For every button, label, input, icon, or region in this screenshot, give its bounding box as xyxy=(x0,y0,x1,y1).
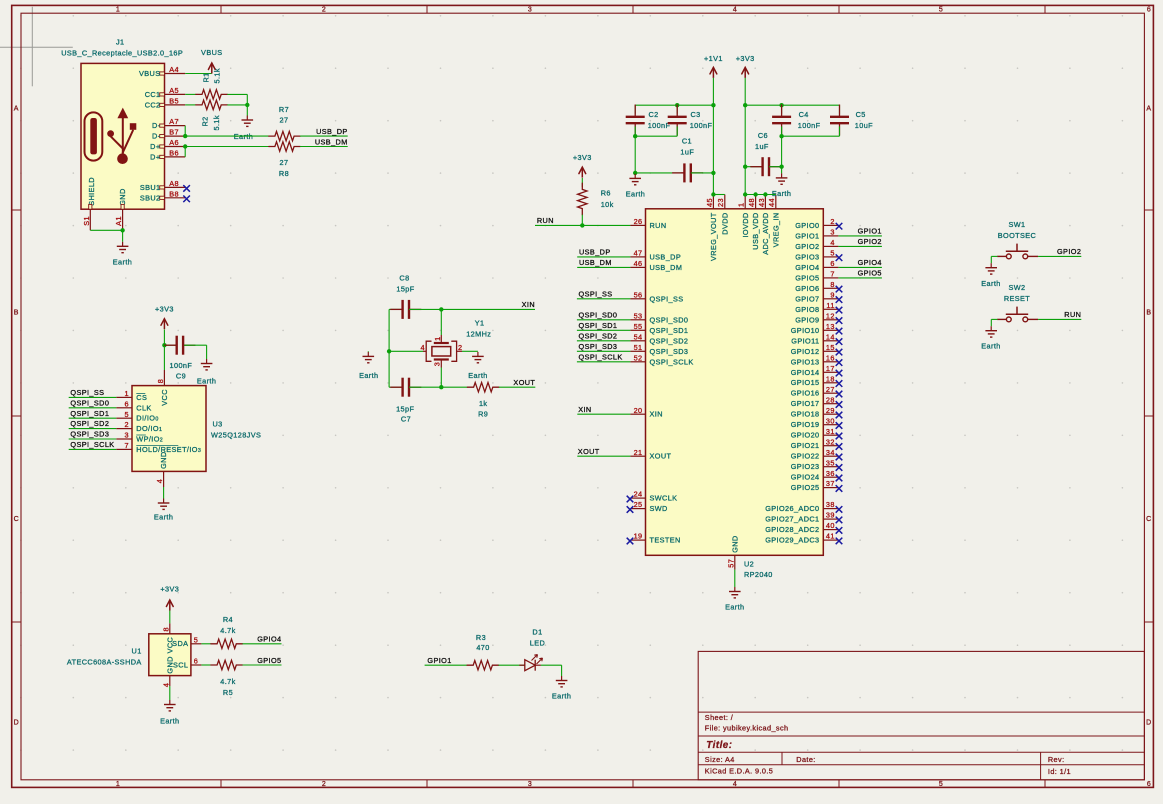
U2 pin 6 GPIO4 xyxy=(795,259,838,272)
wire CC gnd stem xyxy=(246,105,248,116)
junction C6 right xyxy=(779,165,783,169)
U3 pin 1 xyxy=(116,389,147,402)
wire USB_DP to U2 xyxy=(577,248,630,257)
svg-text:RESET: RESET xyxy=(1004,294,1030,303)
svg-text:CC1: CC1 xyxy=(145,90,161,99)
wire XIN to U2 xyxy=(577,405,630,414)
U2 pin 37 GPIO25 xyxy=(791,479,843,492)
svg-text:ATECC608A-SSHDA: ATECC608A-SSHDA xyxy=(67,657,142,666)
wire QSPI_SD3 to U2 xyxy=(577,342,631,351)
wire C8 left down xyxy=(388,309,390,387)
wire mid rail left xyxy=(635,135,677,137)
svg-text:D: D xyxy=(1146,720,1151,727)
svg-text:6: 6 xyxy=(830,259,834,268)
svg-text:2: 2 xyxy=(830,217,834,226)
svg-text:SBU1: SBU1 xyxy=(140,183,161,192)
svg-text:USB_DM: USB_DM xyxy=(315,137,348,146)
svg-text:GPIO29_ADC3: GPIO29_ADC3 xyxy=(765,536,819,545)
svg-text:QSPI_SD2: QSPI_SD2 xyxy=(70,419,109,428)
ground crystal left xyxy=(359,352,378,380)
svg-text:GPIO6: GPIO6 xyxy=(795,284,819,293)
svg-text:14: 14 xyxy=(826,332,835,341)
svg-text:2: 2 xyxy=(322,781,326,788)
svg-text:B8: B8 xyxy=(169,189,179,198)
svg-text:A: A xyxy=(14,106,19,113)
svg-text:+3V3: +3V3 xyxy=(573,153,592,162)
junction +3V3 pins b xyxy=(753,192,757,196)
svg-text:GPIO5: GPIO5 xyxy=(257,656,281,665)
svg-text:R6: R6 xyxy=(601,189,611,198)
power +3V3 rail xyxy=(744,67,746,78)
svg-text:C: C xyxy=(14,516,19,523)
svg-text:34: 34 xyxy=(826,448,835,457)
junction CC gnd xyxy=(245,103,249,107)
svg-text:C2: C2 xyxy=(649,110,659,119)
svg-text:B5: B5 xyxy=(169,97,179,106)
svg-text:D-: D- xyxy=(152,121,161,130)
svg-text:QSPI_SD0: QSPI_SD0 xyxy=(650,315,689,324)
svg-text:GPIO28_ADC2: GPIO28_ADC2 xyxy=(765,525,819,534)
ground C1 xyxy=(626,173,645,199)
svg-text:4.7k: 4.7k xyxy=(220,677,235,686)
U2 pin 4 GPIO2 xyxy=(795,238,838,251)
svg-text:44: 44 xyxy=(767,198,776,207)
svg-text:BOOTSEC: BOOTSEC xyxy=(998,231,1036,240)
svg-text:Earth: Earth xyxy=(725,603,744,612)
U2 pin 2 GPIO0 xyxy=(795,217,842,230)
wire U1 vcc xyxy=(169,611,171,624)
svg-text:Earth: Earth xyxy=(468,371,487,380)
svg-text:GPIO1: GPIO1 xyxy=(858,227,882,236)
svg-text:IOVDD: IOVDD xyxy=(741,212,750,237)
svg-text:QSPI_SD2: QSPI_SD2 xyxy=(579,332,618,341)
U3 pin 2 DO/IO xyxy=(116,420,162,433)
svg-text:15pF: 15pF xyxy=(396,404,414,413)
svg-text:GPIO18: GPIO18 xyxy=(791,410,820,419)
svg-text:DI/IO0: DI/IO0 xyxy=(136,414,158,423)
svg-text:24: 24 xyxy=(634,490,643,499)
resistor R2 xyxy=(196,100,228,109)
svg-text:4.7k: 4.7k xyxy=(220,626,235,635)
svg-text:QSPI_SD0: QSPI_SD0 xyxy=(579,311,618,320)
svg-text:4: 4 xyxy=(155,479,164,483)
junction D+ xyxy=(183,144,187,148)
svg-text:13: 13 xyxy=(826,322,835,331)
U2 pin 32 GPIO21 xyxy=(791,437,843,450)
power +1V1 xyxy=(712,67,714,78)
U2 pin 41 GPIO29_ADC3 xyxy=(765,532,842,545)
svg-text:GPIO5: GPIO5 xyxy=(795,273,819,282)
svg-text:A7: A7 xyxy=(169,117,179,126)
svg-text:29: 29 xyxy=(826,406,835,415)
resistor R1 xyxy=(196,90,228,99)
U2 pin 8 GPIO6 xyxy=(795,280,842,293)
svg-text:6: 6 xyxy=(125,399,129,408)
U2 pin 39 GPIO27_ADC1 xyxy=(765,511,842,524)
svg-text:B6: B6 xyxy=(169,149,179,158)
svg-text:C9: C9 xyxy=(176,372,186,381)
svg-text:GPIO0: GPIO0 xyxy=(795,221,819,230)
svg-text:QSPI_SD3: QSPI_SD3 xyxy=(579,342,618,351)
svg-text:9: 9 xyxy=(830,290,834,299)
svg-text:Y1: Y1 xyxy=(475,318,485,327)
svg-text:QSPI_SCLK: QSPI_SCLK xyxy=(650,357,694,366)
svg-text:GPIO27_ADC1: GPIO27_ADC1 xyxy=(765,515,819,524)
svg-text:8: 8 xyxy=(156,379,165,383)
capacitor C5 xyxy=(830,105,849,137)
svg-text:D+: D+ xyxy=(150,152,160,161)
svg-text:GPIO1: GPIO1 xyxy=(427,656,451,665)
svg-text:2: 2 xyxy=(125,420,129,429)
svg-text:36: 36 xyxy=(826,469,835,478)
capacitor C2 xyxy=(626,105,645,137)
U2 pin 56 QSPI_SS xyxy=(630,290,683,303)
wire top rail left xyxy=(635,104,713,106)
capacitor C3 xyxy=(668,105,687,137)
svg-text:D+: D+ xyxy=(150,142,160,151)
U2 pin 51 QSPI_SD3 xyxy=(630,343,688,356)
U2 pin 12 GPIO9 xyxy=(795,311,842,324)
svg-text:4: 4 xyxy=(161,683,170,687)
junction J1 gnd xyxy=(120,228,124,232)
svg-text:USB_DP: USB_DP xyxy=(316,127,348,136)
svg-text:GPIO4: GPIO4 xyxy=(858,258,882,267)
svg-text:QSPI_SCLK: QSPI_SCLK xyxy=(579,353,623,362)
svg-text:SHIELD: SHIELD xyxy=(87,177,96,206)
svg-text:28: 28 xyxy=(826,395,835,404)
J1 pin A6 D+ xyxy=(150,138,185,151)
svg-text:32: 32 xyxy=(826,437,835,446)
junction top rail +3V3 xyxy=(743,103,747,107)
wire R4 to GPIO4 xyxy=(243,643,282,645)
U2 pin 16 GPIO13 xyxy=(791,353,843,366)
svg-text:XOUT: XOUT xyxy=(578,447,600,456)
svg-text:WP/IO2: WP/IO2 xyxy=(136,435,163,444)
svg-text:KiCad E.D.A. 9.0.5: KiCad E.D.A. 9.0.5 xyxy=(705,767,773,776)
wire R5 to GPIO5 xyxy=(243,664,282,666)
power VBUS xyxy=(201,48,222,74)
svg-text:57: 57 xyxy=(726,559,735,568)
resistor R5 xyxy=(211,660,243,669)
svg-text:USB_VDD: USB_VDD xyxy=(751,212,760,249)
resistor R7 xyxy=(269,131,300,140)
svg-text:7: 7 xyxy=(830,270,834,279)
mcu U2 body xyxy=(646,209,824,556)
svg-text:U3: U3 xyxy=(213,420,223,429)
svg-text:B: B xyxy=(14,310,19,317)
svg-text:QSPI_SS: QSPI_SS xyxy=(650,294,684,303)
U2 pin 52 QSPI_SCLK xyxy=(630,353,693,366)
U2 pin 1 IOVDD xyxy=(737,195,750,238)
J1 pin S1 SHIELD xyxy=(82,204,92,230)
svg-text:48: 48 xyxy=(747,198,756,207)
svg-text:Earth: Earth xyxy=(981,279,1000,288)
U2 pin 9 GPIO7 xyxy=(795,290,842,303)
U2 pin 36 GPIO24 xyxy=(791,469,843,482)
U2 pin 5 GPIO3 xyxy=(795,249,842,262)
svg-text:SWCLK: SWCLK xyxy=(650,494,678,503)
svg-text:1uF: 1uF xyxy=(755,142,769,151)
wire +3V3 rail down xyxy=(744,78,746,195)
U2 pin 38 GPIO26_ADC0 xyxy=(765,500,842,513)
U2 pin 43 ADC_AVDD xyxy=(757,195,770,255)
U2 pin 24 SWCLK xyxy=(627,490,678,503)
svg-text:100nF: 100nF xyxy=(798,121,821,130)
U2 pin 11 GPIO8 xyxy=(795,301,842,314)
svg-text:Rev:: Rev: xyxy=(1048,755,1065,764)
svg-text:470: 470 xyxy=(476,643,489,652)
svg-text:Title:: Title: xyxy=(706,740,732,751)
wire SW2 left gnd xyxy=(991,319,997,326)
U3 pin 4 GND xyxy=(155,451,168,487)
capacitor C1 xyxy=(672,163,713,182)
svg-text:100nF: 100nF xyxy=(690,121,713,130)
svg-text:USB_DM: USB_DM xyxy=(579,258,612,267)
svg-text:52: 52 xyxy=(634,353,643,362)
svg-text:W25Q128JVS: W25Q128JVS xyxy=(211,431,261,440)
svg-text:53: 53 xyxy=(634,311,643,320)
wire R3 to D1 xyxy=(499,664,525,666)
svg-text:Earth: Earth xyxy=(772,189,791,198)
svg-text:4: 4 xyxy=(830,238,834,247)
junction XOUT xyxy=(439,385,443,389)
U2 pin 54 QSPI_SD2 xyxy=(630,332,688,345)
svg-text:1: 1 xyxy=(125,389,129,398)
capacitor C8 xyxy=(389,300,441,319)
svg-text:51: 51 xyxy=(634,343,643,352)
svg-text:QSPI_SS: QSPI_SS xyxy=(70,388,104,397)
wire GPIO2 from U2 xyxy=(838,237,882,246)
svg-text:4: 4 xyxy=(733,7,737,14)
svg-text:B7: B7 xyxy=(169,128,179,137)
svg-text:27: 27 xyxy=(280,115,289,124)
svg-text:C5: C5 xyxy=(856,110,866,119)
svg-text:7: 7 xyxy=(125,441,129,450)
wire and label QSPI_SD0 xyxy=(69,398,117,407)
svg-text:5: 5 xyxy=(939,7,943,14)
svg-text:S1: S1 xyxy=(82,216,91,226)
svg-text:39: 39 xyxy=(826,511,835,520)
power +3V3 U1 xyxy=(169,600,171,611)
no-connect SBU1 xyxy=(183,185,190,192)
svg-text:U2: U2 xyxy=(744,560,754,569)
wire and label QSPI_SD2 xyxy=(69,419,117,428)
svg-text:GPIO17: GPIO17 xyxy=(791,399,820,408)
svg-text:XOUT: XOUT xyxy=(513,378,535,387)
svg-text:4: 4 xyxy=(421,343,425,352)
svg-text:+3V3: +3V3 xyxy=(160,585,179,594)
wire SW1 to GPIO2 xyxy=(1038,255,1081,257)
U1 pin 6 SCL xyxy=(173,657,201,670)
svg-text:R8: R8 xyxy=(279,169,289,178)
junction D- xyxy=(183,134,187,138)
ground CC xyxy=(234,116,253,141)
svg-text:Date:: Date: xyxy=(796,755,815,764)
svg-text:R7: R7 xyxy=(279,105,289,114)
svg-text:27: 27 xyxy=(826,385,835,394)
U2 pin 25 SWD xyxy=(627,500,668,513)
svg-text:1: 1 xyxy=(116,781,120,788)
wire CC2 xyxy=(185,104,196,106)
frame row labels xyxy=(14,106,1152,727)
wire bottom rail left xyxy=(635,172,681,174)
svg-text:CLK: CLK xyxy=(136,403,151,412)
svg-text:A5: A5 xyxy=(169,86,179,95)
svg-text:Earth: Earth xyxy=(359,371,378,380)
svg-text:GND: GND xyxy=(118,188,127,205)
svg-text:26: 26 xyxy=(634,217,643,226)
svg-text:SDA: SDA xyxy=(172,639,188,648)
svg-text:RUN: RUN xyxy=(1064,310,1081,319)
U2 pin 20 XIN xyxy=(630,406,662,419)
svg-text:5.1k: 5.1k xyxy=(212,115,221,130)
U2 pin 18 GPIO15 xyxy=(791,374,843,387)
J1 pin B6 D+ xyxy=(150,149,185,162)
svg-text:Earth: Earth xyxy=(154,513,173,522)
svg-text:8: 8 xyxy=(830,280,834,289)
svg-text:18: 18 xyxy=(826,374,835,383)
resistor R6 xyxy=(578,183,587,215)
crypto U1 body xyxy=(149,634,191,676)
svg-text:LED: LED xyxy=(530,639,545,648)
svg-text:D-: D- xyxy=(152,132,161,141)
wire QSPI_SD2 to U2 xyxy=(577,332,631,341)
junction +1V1 pins xyxy=(711,192,715,196)
svg-text:Earth: Earth xyxy=(160,717,179,726)
junction top rail C3 xyxy=(675,103,679,107)
resistor R3 xyxy=(467,661,499,670)
capacitor C6 xyxy=(745,157,781,176)
junction top rail +1V1 xyxy=(711,103,715,107)
svg-text:R3: R3 xyxy=(476,633,486,642)
wire SDA to R4 xyxy=(201,643,211,645)
svg-text:TESTEN: TESTEN xyxy=(650,536,681,545)
U2 pin 21 XOUT xyxy=(630,448,671,461)
junction XIN xyxy=(439,307,443,311)
svg-text:+3V3: +3V3 xyxy=(736,54,755,63)
wire D1 to gnd xyxy=(541,665,562,676)
wire crystal left gnd stem xyxy=(367,350,369,353)
wire QSPI_SD1 to U2 xyxy=(577,321,631,330)
svg-text:GPIO13: GPIO13 xyxy=(791,357,820,366)
svg-text:QSPI_SD2: QSPI_SD2 xyxy=(650,336,689,345)
svg-text:Earth: Earth xyxy=(197,376,216,385)
power +3V3 R6 xyxy=(581,167,583,178)
resistor R9 xyxy=(467,383,499,392)
svg-text:38: 38 xyxy=(826,500,835,509)
wire R8 to USB_DM xyxy=(300,146,348,148)
wire D+ to R8 xyxy=(185,146,269,148)
wire CC2 to gnd xyxy=(227,104,247,106)
led D1 xyxy=(519,655,542,671)
wire D+ A6 jog xyxy=(184,147,186,157)
svg-text:A8: A8 xyxy=(169,179,179,188)
svg-text:46: 46 xyxy=(634,259,643,268)
svg-text:1uF: 1uF xyxy=(680,147,694,156)
ground U1 xyxy=(160,700,179,726)
U3 pin 7 HOLD/RESET/IO xyxy=(116,441,201,454)
wire D- to R7 xyxy=(185,135,269,137)
svg-text:1: 1 xyxy=(116,7,120,14)
svg-text:15pF: 15pF xyxy=(396,285,414,294)
U2 pin 44 VREG_IN xyxy=(767,195,780,248)
ground SW1 xyxy=(981,263,1000,288)
svg-text:B: B xyxy=(1146,310,1151,317)
wire U3 vcc xyxy=(163,345,165,370)
resistor R8 xyxy=(269,142,300,151)
U2 pin 26 RUN xyxy=(630,217,666,230)
svg-text:XIN: XIN xyxy=(522,300,535,309)
svg-text:C: C xyxy=(1146,516,1151,523)
svg-text:GND: GND xyxy=(730,535,739,552)
wire J1 shield to gnd xyxy=(90,230,122,242)
wire and label QSPI_SCLK xyxy=(69,440,117,449)
U2 pin 28 GPIO17 xyxy=(791,395,843,408)
svg-text:GPIO20: GPIO20 xyxy=(791,431,820,440)
J1 pin A8 SBU1 xyxy=(140,179,185,192)
svg-text:45: 45 xyxy=(705,198,714,207)
svg-text:GPIO11: GPIO11 xyxy=(791,336,819,345)
U2 pin 53 QSPI_SD0 xyxy=(630,311,688,324)
wire VBUS xyxy=(185,73,212,75)
switch SW2 xyxy=(997,307,1038,322)
svg-text:RP2040: RP2040 xyxy=(744,570,773,579)
U2 pin 34 GPIO22 xyxy=(791,448,843,461)
svg-text:VREG_VOUT: VREG_VOUT xyxy=(709,212,718,261)
svg-text:Sheet: /: Sheet: / xyxy=(705,713,734,722)
resistor R4 xyxy=(211,639,243,648)
svg-text:XIN: XIN xyxy=(650,410,663,419)
junction bottom rail +1V1 xyxy=(711,171,715,175)
ground C9 xyxy=(197,359,216,385)
J1 pin B7 D- xyxy=(152,128,185,141)
U2 pin 7 GPIO5 xyxy=(795,270,838,283)
svg-text:R9: R9 xyxy=(478,410,488,419)
svg-text:GPIO9: GPIO9 xyxy=(795,315,819,324)
U3 pin 5 DI/IO xyxy=(116,410,158,423)
svg-text:XIN: XIN xyxy=(578,405,591,414)
U2 pin 15 GPIO12 xyxy=(791,343,843,356)
J1 pin B5 CC2 xyxy=(145,97,186,110)
svg-text:SWD: SWD xyxy=(650,504,668,513)
svg-text:100nF: 100nF xyxy=(648,121,671,130)
ground C6 xyxy=(772,167,791,198)
wire XOUT to R9 xyxy=(441,386,467,388)
U2 pin 23 DVDD xyxy=(716,195,729,235)
junction mid rail left xyxy=(633,134,637,138)
svg-text:16: 16 xyxy=(826,353,835,362)
wire R9 to XOUT label xyxy=(499,386,535,388)
svg-text:XOUT: XOUT xyxy=(650,452,672,461)
svg-text:GPIO4: GPIO4 xyxy=(795,263,819,272)
svg-text:11: 11 xyxy=(826,301,834,310)
svg-text:QSPI_SD1: QSPI_SD1 xyxy=(70,409,109,418)
svg-text:A6: A6 xyxy=(169,138,179,147)
svg-text:GPIO2: GPIO2 xyxy=(1057,247,1081,256)
ground U3 xyxy=(154,499,173,522)
capacitor C9 xyxy=(164,336,206,359)
U2 pin 30 GPIO19 xyxy=(791,416,843,429)
ground J1 xyxy=(113,242,132,266)
svg-text:A: A xyxy=(1146,106,1151,113)
svg-text:GPIO12: GPIO12 xyxy=(791,347,820,356)
U2 pin 3 GPIO1 xyxy=(795,228,838,241)
svg-text:100nF: 100nF xyxy=(170,361,193,370)
svg-text:12MHz: 12MHz xyxy=(466,330,491,339)
svg-text:SCL: SCL xyxy=(173,660,188,669)
svg-text:30: 30 xyxy=(826,416,835,425)
wire and label QSPI_SD3 xyxy=(69,430,117,439)
